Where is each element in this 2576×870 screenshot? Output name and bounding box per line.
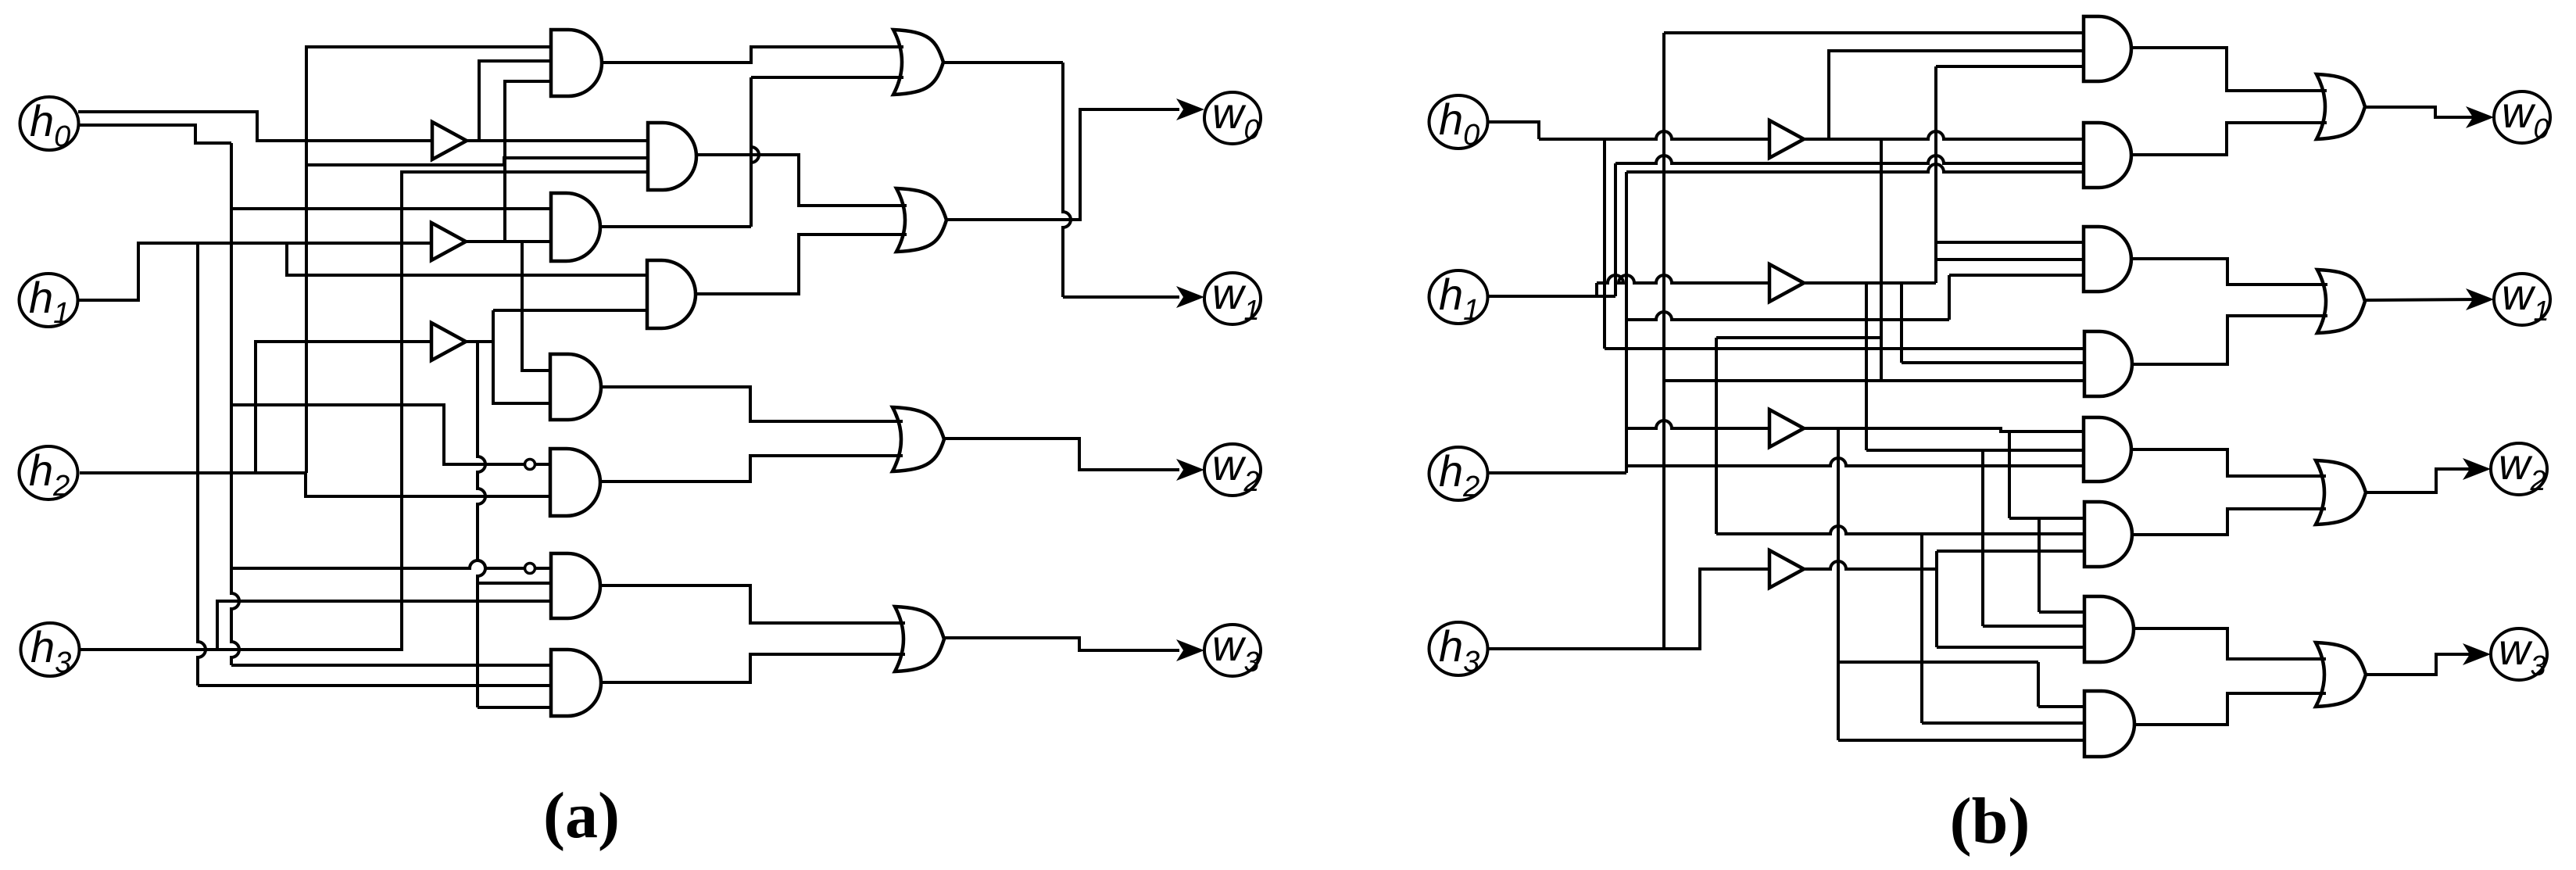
wire column x2459 <box>1920 534 1923 723</box>
arrowhead w3 (b) <box>2463 643 2491 665</box>
node output w1 (b) <box>2494 274 2550 325</box>
wire B3 to A7 in2 <box>478 582 551 585</box>
inverter bubble A7 input (a) <box>525 564 535 574</box>
node input h1 (b) <box>1429 270 1488 324</box>
wire O4 out to w3 <box>944 638 1179 650</box>
wire h1 branch (b) <box>1595 283 1598 296</box>
wire A6 out to O3 in2 (b) <box>2132 509 2326 535</box>
node input h0 (a) <box>20 97 79 150</box>
wire h0 vertical x296 <box>231 143 239 665</box>
wire A1 out to O1 in1 (b) <box>2131 48 2327 91</box>
wire A3 to O1 in2 <box>751 76 903 79</box>
wire B4 to A7 in3 (b) <box>1937 646 2084 649</box>
wire h1 column x2067 <box>1614 163 1617 296</box>
wire h2 to A6 in2 <box>306 473 550 496</box>
buffer B1 (b) <box>1769 120 1804 158</box>
wire B4 column x2478 <box>1935 551 1938 647</box>
svg-text:(b): (b) <box>1950 785 2030 857</box>
wire O2 out to w1 (b) <box>2365 299 2483 300</box>
wire B3 to A8 in1 (b) <box>2038 705 2084 708</box>
wire h2 to B3 <box>256 342 431 473</box>
node input h3 (a) <box>21 623 80 676</box>
svg-text:(a): (a) <box>543 779 620 852</box>
node output w1 (a) <box>1204 273 1261 324</box>
arrowhead w3 (a) <box>1176 639 1204 661</box>
wire to A3 in3 (b) <box>1949 274 2084 277</box>
wire B4 to A6 in3 (b) <box>1937 550 2084 553</box>
wire h0 to A6 bubble <box>231 405 524 464</box>
wire B3 to A6 in1 (b) <box>2009 517 2084 520</box>
wire O1 out <box>943 61 1063 64</box>
wire A3 out <box>600 225 751 228</box>
AND gate A5 (b) <box>2084 417 2131 482</box>
wire h0 (b) <box>1488 122 1539 139</box>
AND gate A1 (b) <box>2084 16 2131 81</box>
wire B3 to A4 in2 <box>493 309 647 312</box>
wire h1 to A4 in1 <box>287 243 647 275</box>
wire column x2196 <box>1715 338 1718 534</box>
wire h2 to A2 in3 (b) <box>1626 164 2084 172</box>
wire h2 <box>80 471 306 474</box>
wire h2 to A2 in2 <box>306 158 648 165</box>
buffer B2 (a) <box>431 223 466 260</box>
wire h0 column x2053 <box>1603 139 1606 349</box>
AND gate A4 (b) <box>2084 331 2132 396</box>
node input h2 (b) <box>1429 447 1488 500</box>
buffer B2 (b) <box>1769 264 1804 302</box>
node output w3 (a) <box>1204 625 1261 676</box>
wire h0 branch <box>78 125 231 143</box>
wire B2 out to A5 in1 <box>522 242 550 371</box>
wire h2 (b) <box>1488 471 1626 474</box>
wire B3 to A7 in1 (b) <box>2039 610 2084 614</box>
wire B2 out (b) <box>1802 281 1936 285</box>
wire B2 column x2433 <box>1900 283 1903 363</box>
node input h3 (b) <box>1429 622 1488 675</box>
wire h3 to A7 in3 <box>217 601 551 650</box>
wire O4 out to w3 (b) <box>2366 654 2480 675</box>
arrowhead w0 (a) <box>1176 98 1204 120</box>
node input h0 (b) <box>1429 95 1488 149</box>
wire h0 to A4 in1 (b) <box>1605 347 2084 350</box>
wire B2 out to A3 in2 <box>462 240 551 243</box>
wire h0 to A8 in1 <box>231 664 551 667</box>
wire B3 column x2608b <box>2037 662 2040 707</box>
wire B4 out (b) <box>1802 561 1937 569</box>
wire B2 to A1 in3 (b) <box>1936 65 2084 68</box>
wire O3 out to w2 <box>944 439 1179 470</box>
wire h0 to B1 <box>78 112 432 141</box>
AND gate A7 (b) <box>2084 596 2134 662</box>
wire B1 to A1 in2 (b) <box>1829 51 2084 139</box>
wire A1 out to O1 in1 <box>602 47 903 63</box>
OR gate O4 (b) <box>2316 643 2366 707</box>
AND gate A6 (a) <box>550 449 600 516</box>
wire h1 (b) <box>1488 295 1615 298</box>
wire A4 out to O2 in2 <box>696 235 907 294</box>
wire O3 out to w2 (b) <box>2366 469 2480 492</box>
node input h1 (a) <box>20 274 78 327</box>
buffer B3 (b) <box>1769 410 1804 447</box>
AND gate A7 (a) <box>551 553 600 618</box>
wire h2 to A1 in1 <box>306 47 551 473</box>
wire B3 column x2571 <box>2008 431 2011 518</box>
wire B2 column x2388 <box>1865 283 1868 450</box>
wire B2 to A7 in2 (b) <box>1983 625 2084 628</box>
wire A8 out to O4 in2 <box>601 654 905 682</box>
node output w0 (b) <box>2494 91 2550 143</box>
wire B2 to A3 in2 (b) <box>1936 258 2084 261</box>
wire h3 column x2129 <box>1662 33 1665 650</box>
AND gate A8 (b) <box>2084 691 2134 757</box>
node output w0 (a) <box>1204 92 1261 144</box>
wire column x2494 <box>1948 275 1951 320</box>
wire A6 out to O3 in2 <box>600 456 903 482</box>
wire h0 to A7 bubble <box>231 560 524 568</box>
wire O2 out to w0 <box>946 109 1179 220</box>
wire to A6 in2 (b) <box>1716 526 2084 534</box>
wire A8 out to O4 in2 (b) <box>2134 693 2326 725</box>
wire B3 out <box>462 340 493 343</box>
wire O1 vertical <box>1063 63 1071 297</box>
AND gate A4 (a) <box>647 260 696 328</box>
OR gate O4 (a) <box>895 607 944 671</box>
OR gate O2 (b) <box>2317 270 2365 333</box>
wire A5 out to O3 in1 (b) <box>2131 449 2326 476</box>
AND gate A6 (b) <box>2084 502 2132 567</box>
wire O1 to w1 <box>1063 295 1179 299</box>
wire A2 out to O2 in1 <box>696 155 907 206</box>
wire h1 vertical x253 <box>198 243 206 686</box>
wire B3 row 847 (b) <box>1838 661 2038 664</box>
buffer B1 (a) <box>432 122 467 159</box>
node input h2 (a) <box>20 446 78 499</box>
wire B3 column x2358 <box>1837 428 1840 740</box>
wire B1 out to A2 in1 <box>467 139 648 142</box>
wire h1 to B2 <box>78 243 431 300</box>
wire h2 to A5 in3 (b) <box>1626 458 2084 466</box>
wire A5 out to O3 in1 <box>601 387 903 421</box>
node output w3 (b) <box>2491 628 2547 680</box>
AND gate A5 (a) <box>550 354 601 420</box>
arrowhead w2 (a) <box>1176 459 1204 481</box>
wire A3 out vertical <box>751 77 759 227</box>
wire B2 to A4 in2 (b) <box>1902 361 2084 364</box>
OR gate O3 (b) <box>2316 460 2366 525</box>
wire B1 out to A2 in1 (b) <box>1802 131 2084 139</box>
OR gate O3 (a) <box>893 407 944 471</box>
AND gate A2 (b) <box>2084 123 2131 188</box>
inverter bubble A6 input (a) <box>525 460 535 470</box>
wire B2 column x2537 <box>1981 450 1984 626</box>
arrowhead w2 (b) <box>2463 458 2491 480</box>
wire A3 out to O2 in1 (b) <box>2131 259 2327 285</box>
wire h1 to A2 in2 (b) <box>1615 156 2084 163</box>
AND gate A2 (a) <box>648 123 696 190</box>
bubble stubs <box>535 463 550 466</box>
wire B2 to A3 in1 (b) <box>1936 241 2084 244</box>
wire B1 column x2409 <box>1880 139 1883 381</box>
wire h2 to B3 (b) <box>1626 421 1769 428</box>
node output w2 (b) <box>2491 443 2547 495</box>
wire B3 vertical x611 <box>478 342 485 707</box>
wire h2 row 409 (b) <box>1627 312 1949 320</box>
AND gate A3 (a) <box>551 193 600 261</box>
wire B3 to A8 in3 <box>478 706 551 709</box>
wire B2 out to A1 in3 <box>505 81 551 242</box>
arrowhead w1 (b) <box>2466 288 2494 310</box>
wire B3 to A5 in2 <box>493 310 550 403</box>
OR gate O1 (a) <box>893 30 943 95</box>
wire A7 out to O4 in1 <box>600 585 905 623</box>
AND gate A8 (a) <box>551 650 601 716</box>
wire A2 out to O1 in2 (b) <box>2131 123 2327 155</box>
wire A4 out to O2 in2 (b) <box>2132 316 2327 364</box>
wire h1 to A8 in2 <box>198 684 551 687</box>
wire h0 to B1 (b) <box>1539 131 1769 139</box>
wire h3 to A2 in3 <box>80 172 648 650</box>
wire to A8 in2 (b) <box>1922 721 2084 725</box>
wire h2 column x2081 <box>1625 172 1628 473</box>
OR gate O2 (a) <box>896 188 946 252</box>
wire B3 column x2608a <box>2038 518 2041 612</box>
AND gate A1 (a) <box>551 30 602 96</box>
wire row 432 (b) <box>1716 336 1881 339</box>
wire A7 out to O4 in1 (b) <box>2134 628 2326 659</box>
buffer B3 (a) <box>431 323 466 360</box>
wire B3 out to A5 in1 (b) <box>1802 428 2084 431</box>
wire B2 column x2477 <box>1934 66 1937 283</box>
wire to A8 in3 (b) <box>1838 739 2084 742</box>
OR gate O1 (b) <box>2317 74 2365 139</box>
buffer B4 (b) <box>1769 550 1804 588</box>
wire O1 out to w0 (b) <box>2365 107 2483 117</box>
wire B2 to A5 in2 (b) <box>1866 449 2084 452</box>
wire h3 to A1 in1 (b) <box>1664 31 2084 34</box>
arrowhead w0 (b) <box>2466 106 2494 128</box>
node output w2 (a) <box>1204 444 1261 496</box>
wire B1 out to A1 in2 <box>479 61 551 141</box>
wire h1 to B2 (b) <box>1597 275 1769 283</box>
AND gate A3 (b) <box>2084 227 2131 292</box>
wire h3 to A4 in3 (b) <box>1664 379 2084 382</box>
wire h3 to B4 (b) <box>1488 569 1769 649</box>
wire h0 to A3 in1 <box>231 207 551 210</box>
arrowhead w1 (a) <box>1176 286 1204 308</box>
